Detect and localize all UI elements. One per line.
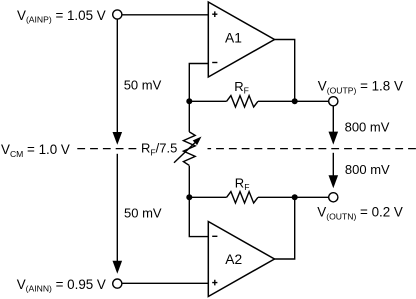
svg-text:A1: A1 [225,31,242,46]
resistor RF top [227,96,258,107]
node bottom-right junction [292,194,298,200]
wire AINN to A2 plus input [122,282,208,284]
wire A1 output loop [275,40,295,102]
op-amp U A2 [208,222,274,297]
svg-text:800 mV: 800 mV [345,162,390,177]
wire bottom rail right [258,196,295,198]
input terminal circle AINN [113,279,122,288]
arrow 800 mV lower [332,153,334,177]
wire AINP down to VCM rail [116,19,118,134]
wire bottom rail left [189,196,226,198]
output terminal circle OUTP [329,97,338,106]
wire VCM rail down to AINN [116,154,118,262]
op-amp U A1 [208,2,274,77]
wire mid column lower [188,166,190,198]
wire to OUTN terminal [295,196,329,198]
arrowhead 50 mV top [113,132,123,145]
node bottom-left junction [186,194,192,200]
wire A2 output loop [275,197,295,259]
arrow 800 mV upper [332,106,334,133]
arrow through variable resistor [174,140,198,163]
svg-text:V(AINP) = 1.05 V: V(AINP) = 1.05 V [17,8,106,25]
svg-text:50 mV: 50 mV [124,77,162,92]
input terminal circle AINP [113,10,122,19]
node top-left junction [186,98,192,104]
svg-text:800 mV: 800 mV [345,120,390,135]
svg-text:V(AINN) = 0.95 V: V(AINN) = 0.95 V [17,277,106,294]
VCM dashed rail right segment [208,148,416,150]
wire AINP to A1 plus input [122,14,208,16]
output terminal circle OUTN [329,193,338,202]
svg-text:V(OUTP) = 1.8 V: V(OUTP) = 1.8 V [318,79,403,96]
wire A2 minus input [189,197,208,236]
resistor RF/7.5 variable [183,132,195,166]
svg-text:V(OUTN) = 0.2 V: V(OUTN) = 0.2 V [317,205,403,222]
svg-text:RF: RF [235,176,250,193]
svg-text:VCM = 1.0 V: VCM = 1.0 V [1,142,70,159]
wire top rail left [189,100,226,102]
svg-text:RF: RF [234,79,249,96]
VCM dashed rail left segment [77,148,137,150]
arrowhead 50 mV bottom [113,261,123,274]
resistor RF bottom [227,192,258,203]
svg-text:A2: A2 [225,252,242,267]
wire A1 minus input [189,64,208,102]
wire mid column upper [188,101,190,132]
svg-text:RF/7.5: RF/7.5 [141,141,177,158]
wire to OUTP terminal [295,100,329,102]
svg-text:50 mV: 50 mV [124,206,162,221]
node top-right junction [292,98,298,104]
wire top rail right [258,100,295,102]
